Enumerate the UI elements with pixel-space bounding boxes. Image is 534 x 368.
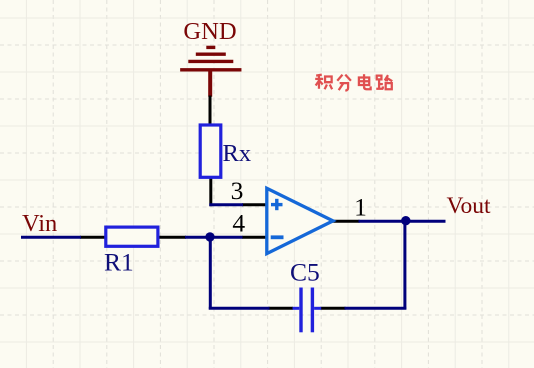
svg-text:3: 3 bbox=[231, 176, 244, 205]
svg-text:1: 1 bbox=[354, 193, 367, 222]
svg-text:Vin: Vin bbox=[22, 210, 57, 237]
svg-text:4: 4 bbox=[232, 209, 245, 238]
svg-text:Rx: Rx bbox=[223, 140, 252, 167]
svg-text:R1: R1 bbox=[104, 247, 134, 276]
svg-text:C5: C5 bbox=[290, 257, 320, 286]
svg-text:GND: GND bbox=[183, 18, 236, 45]
svg-text:Vout: Vout bbox=[447, 193, 491, 219]
